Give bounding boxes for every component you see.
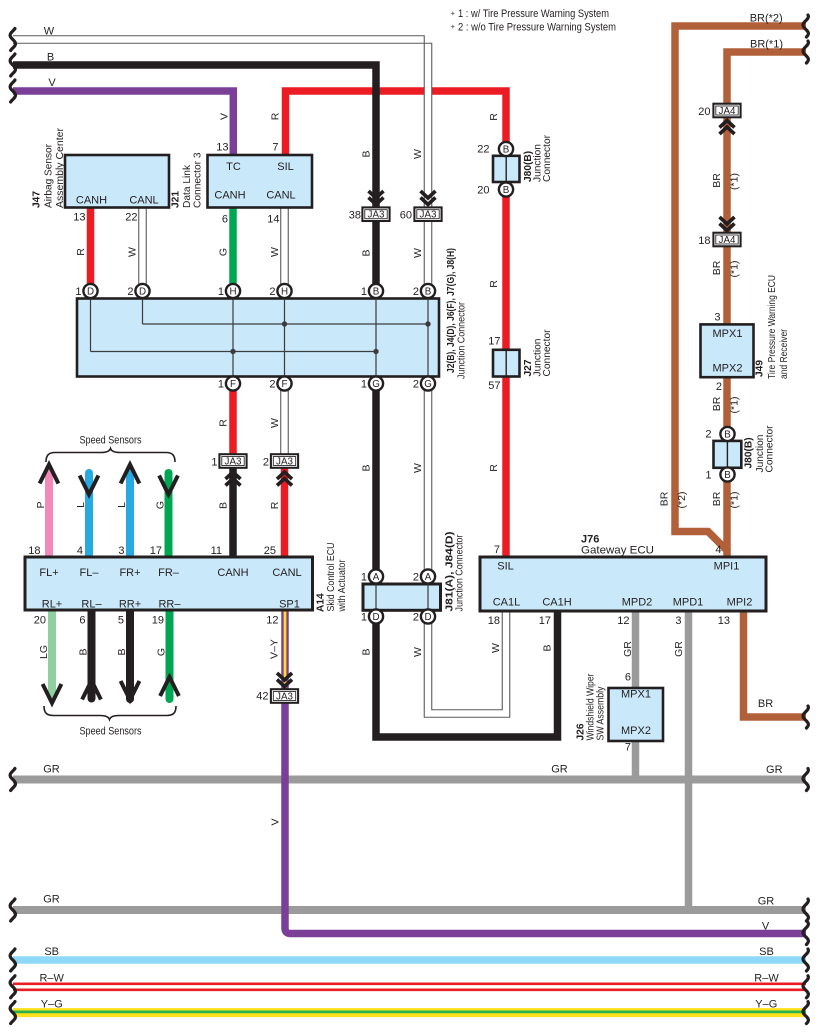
- svg-text:(*2): (*2): [676, 492, 688, 509]
- svg-text:B: B: [542, 644, 554, 651]
- svg-text:BR: BR: [659, 491, 671, 506]
- svg-text:1: 1: [75, 286, 81, 298]
- svg-text:2: 2: [413, 572, 419, 584]
- svg-text:W: W: [269, 418, 281, 428]
- svg-text:D: D: [139, 286, 146, 297]
- svg-text:7: 7: [494, 544, 500, 556]
- svg-text:JA3: JA3: [276, 457, 293, 468]
- svg-text:GR: GR: [622, 641, 634, 657]
- svg-text:1 : w/ Tire Pressure Warning S: 1 : w/ Tire Pressure Warning System: [458, 8, 609, 20]
- svg-text:MPI2: MPI2: [727, 597, 753, 609]
- svg-text:GR: GR: [673, 641, 685, 657]
- svg-text:13: 13: [718, 615, 730, 627]
- svg-text:Speed Sensors: Speed Sensors: [80, 726, 142, 738]
- svg-text:JA3: JA3: [420, 210, 437, 221]
- svg-text:12: 12: [617, 615, 629, 627]
- svg-text:B: B: [503, 185, 510, 196]
- svg-text:11: 11: [211, 545, 222, 557]
- svg-text:13: 13: [73, 212, 85, 224]
- svg-text:B: B: [116, 648, 128, 655]
- svg-text:F: F: [282, 379, 288, 390]
- svg-text:(*1): (*1): [729, 492, 741, 509]
- svg-text:MPX1: MPX1: [713, 328, 743, 340]
- svg-text:B: B: [724, 470, 731, 481]
- svg-text:2 : w/o Tire Pressure Warning: 2 : w/o Tire Pressure Warning System: [458, 21, 616, 33]
- svg-text:B: B: [503, 144, 510, 155]
- svg-text:2: 2: [127, 286, 133, 298]
- svg-text:B: B: [361, 648, 373, 655]
- svg-text:BR: BR: [711, 173, 723, 188]
- svg-text:MPD2: MPD2: [622, 597, 653, 609]
- svg-text:2: 2: [413, 286, 419, 298]
- svg-text:P: P: [35, 501, 47, 508]
- svg-text:Tire Pressure Warning ECU: Tire Pressure Warning ECU: [767, 275, 778, 379]
- svg-text:GR: GR: [551, 764, 568, 776]
- svg-text:12: 12: [266, 615, 278, 627]
- svg-text:W: W: [412, 248, 424, 258]
- svg-text:20: 20: [477, 185, 489, 197]
- svg-text:SW Assembly: SW Assembly: [596, 686, 607, 741]
- svg-text:RR+: RR+: [119, 599, 141, 611]
- svg-text:(*1): (*1): [729, 261, 741, 278]
- svg-text:Speed Sensors: Speed Sensors: [80, 434, 142, 446]
- svg-text:22: 22: [125, 212, 137, 224]
- svg-text:and Receiver: and Receiver: [779, 328, 790, 379]
- svg-text:6: 6: [79, 615, 85, 627]
- svg-text:17: 17: [150, 545, 162, 557]
- svg-text:22: 22: [477, 144, 489, 156]
- svg-text:J80(B): J80(B): [744, 437, 755, 468]
- svg-text:18: 18: [698, 235, 710, 247]
- svg-text:CA1L: CA1L: [493, 597, 521, 609]
- svg-text:R: R: [269, 501, 281, 509]
- svg-text:A: A: [425, 572, 432, 583]
- svg-text:CA1H: CA1H: [542, 597, 571, 609]
- svg-text:J47: J47: [32, 191, 43, 208]
- svg-text:D: D: [87, 286, 94, 297]
- svg-text:J2(B), J4(D), J6(F), J7(G), J8: J2(B), J4(D), J6(F), J7(G), J8(H): [446, 248, 457, 373]
- svg-text:25: 25: [264, 545, 276, 557]
- svg-text:R: R: [488, 464, 500, 472]
- svg-text:W: W: [412, 463, 424, 473]
- svg-text:5: 5: [118, 615, 124, 627]
- svg-text:18: 18: [488, 615, 500, 627]
- svg-text:SP1: SP1: [279, 599, 300, 611]
- svg-text:13: 13: [216, 142, 228, 154]
- svg-text:1: 1: [705, 470, 711, 482]
- svg-text:W: W: [269, 247, 281, 257]
- svg-text:MPX1: MPX1: [621, 688, 651, 700]
- svg-text:Junction Connector: Junction Connector: [455, 534, 466, 612]
- svg-text:Connector 3: Connector 3: [193, 152, 204, 208]
- svg-text:2: 2: [413, 612, 419, 624]
- svg-text:W: W: [127, 247, 139, 257]
- svg-text:Data Link: Data Link: [182, 164, 193, 208]
- svg-text:FL–: FL–: [80, 567, 100, 579]
- svg-text:R–W: R–W: [754, 973, 779, 985]
- svg-text:(*1): (*1): [729, 173, 741, 190]
- svg-text:B: B: [724, 429, 731, 440]
- svg-text:JA4: JA4: [719, 235, 736, 246]
- svg-text:B: B: [361, 150, 373, 157]
- svg-text:GR: GR: [43, 764, 60, 776]
- svg-text:4: 4: [77, 545, 83, 557]
- svg-text:1: 1: [218, 286, 224, 298]
- svg-text:B: B: [361, 464, 373, 471]
- svg-text:1: 1: [218, 379, 224, 391]
- svg-text:20: 20: [698, 106, 710, 118]
- svg-text:MPD1: MPD1: [673, 597, 704, 609]
- svg-text:W: W: [44, 25, 55, 37]
- svg-text:2: 2: [705, 429, 711, 441]
- svg-text:SB: SB: [759, 946, 774, 958]
- svg-text:TC: TC: [226, 161, 241, 173]
- svg-text:B: B: [425, 286, 432, 297]
- svg-text:BR: BR: [711, 491, 723, 506]
- svg-text:2: 2: [716, 381, 722, 393]
- svg-text:7: 7: [625, 742, 631, 754]
- svg-text:17: 17: [539, 615, 551, 627]
- svg-text:CANL: CANL: [129, 195, 158, 207]
- svg-text:1: 1: [361, 612, 367, 624]
- svg-text:R–W: R–W: [39, 973, 64, 985]
- svg-text:CANL: CANL: [266, 190, 295, 202]
- svg-text:B: B: [361, 249, 373, 256]
- svg-text:D: D: [372, 612, 379, 623]
- svg-text:J49: J49: [755, 360, 766, 377]
- svg-text:V–Y: V–Y: [269, 639, 281, 659]
- svg-text:B: B: [218, 502, 230, 509]
- svg-text:Y–G: Y–G: [755, 998, 777, 1010]
- svg-text:20: 20: [34, 615, 46, 627]
- svg-text:MPX2: MPX2: [713, 363, 743, 375]
- svg-text:G: G: [218, 248, 230, 256]
- svg-text:17: 17: [488, 336, 500, 348]
- svg-text:Assembly Center: Assembly Center: [55, 127, 66, 208]
- svg-text:38: 38: [349, 210, 361, 222]
- svg-text:3: 3: [118, 545, 124, 557]
- svg-text:JA3: JA3: [368, 210, 385, 221]
- svg-text:6: 6: [222, 214, 228, 226]
- svg-text:CANH: CANH: [214, 190, 245, 202]
- svg-text:42: 42: [256, 691, 268, 703]
- svg-text:18: 18: [28, 545, 40, 557]
- svg-text:JA3: JA3: [276, 692, 293, 703]
- svg-text:RL+: RL+: [42, 599, 63, 611]
- svg-text:MPX2: MPX2: [621, 725, 651, 737]
- svg-text:1: 1: [211, 457, 217, 469]
- svg-text:14: 14: [267, 214, 279, 226]
- svg-text:J21: J21: [171, 191, 182, 208]
- svg-text:Y–G: Y–G: [41, 998, 63, 1010]
- svg-text:F: F: [230, 379, 236, 390]
- svg-text:19: 19: [152, 615, 164, 627]
- svg-text:V: V: [48, 77, 56, 89]
- svg-text:Junction Connector: Junction Connector: [457, 301, 468, 379]
- svg-text:60: 60: [400, 210, 412, 222]
- svg-text:CANH: CANH: [76, 195, 107, 207]
- svg-text:SIL: SIL: [277, 161, 294, 173]
- svg-text:G: G: [424, 379, 432, 390]
- svg-text:A14: A14: [316, 593, 327, 612]
- svg-text:FL+: FL+: [39, 567, 58, 579]
- svg-text:H: H: [281, 286, 288, 297]
- svg-text:RR–: RR–: [158, 599, 181, 611]
- svg-text:JA3: JA3: [225, 457, 242, 468]
- svg-text:G: G: [156, 648, 168, 656]
- svg-text:CANL: CANL: [272, 567, 301, 579]
- svg-text:FR–: FR–: [158, 567, 180, 579]
- svg-text:4: 4: [715, 544, 721, 556]
- svg-text:R: R: [488, 113, 500, 121]
- svg-text:H: H: [229, 286, 236, 297]
- svg-text:R: R: [270, 112, 282, 120]
- svg-text:L: L: [75, 502, 87, 508]
- svg-text:SIL: SIL: [497, 561, 514, 573]
- svg-text:(*1): (*1): [729, 397, 741, 414]
- svg-text:B: B: [373, 286, 380, 297]
- svg-text:3: 3: [675, 615, 681, 627]
- svg-text:B: B: [78, 648, 90, 655]
- svg-text:with Actuator: with Actuator: [337, 559, 348, 612]
- svg-text:1: 1: [361, 572, 367, 584]
- svg-text:2: 2: [263, 457, 269, 469]
- svg-text:BR: BR: [758, 698, 773, 710]
- svg-text:RL–: RL–: [81, 599, 102, 611]
- svg-text:W: W: [412, 149, 424, 159]
- svg-text:W: W: [412, 647, 424, 657]
- svg-text:MPI1: MPI1: [714, 561, 740, 573]
- svg-text:JA4: JA4: [719, 106, 736, 117]
- svg-text:Skid Control ECU: Skid Control ECU: [326, 543, 337, 612]
- svg-text:FR+: FR+: [119, 567, 140, 579]
- svg-text:1: 1: [361, 286, 367, 298]
- svg-text:Connector: Connector: [542, 329, 553, 377]
- svg-text:7: 7: [272, 142, 278, 154]
- svg-text:6: 6: [625, 672, 631, 684]
- svg-text:B: B: [47, 51, 54, 63]
- svg-text:BR: BR: [711, 260, 723, 275]
- svg-text:G: G: [155, 501, 167, 509]
- svg-text:BR(*2): BR(*2): [750, 13, 783, 25]
- svg-text:GR: GR: [766, 764, 783, 776]
- svg-text:V: V: [270, 818, 282, 825]
- svg-text:2: 2: [269, 286, 275, 298]
- svg-text:BR(*1): BR(*1): [750, 39, 783, 51]
- svg-text:CANH: CANH: [217, 567, 248, 579]
- svg-text:2: 2: [269, 379, 275, 391]
- svg-text:D: D: [424, 612, 431, 623]
- svg-text:A: A: [373, 572, 380, 583]
- svg-text:1: 1: [361, 379, 367, 391]
- svg-text:3: 3: [714, 312, 720, 324]
- svg-text:Connector: Connector: [542, 134, 553, 182]
- svg-text:L: L: [116, 502, 128, 508]
- svg-text:2: 2: [413, 379, 419, 391]
- svg-text:Connector: Connector: [765, 425, 776, 473]
- svg-text:V: V: [219, 113, 231, 120]
- svg-text:R: R: [218, 419, 230, 427]
- svg-text:Gateway ECU: Gateway ECU: [581, 545, 654, 557]
- svg-text:V: V: [762, 921, 770, 933]
- svg-text:W: W: [490, 643, 502, 653]
- svg-text:G: G: [372, 379, 380, 390]
- svg-text:GR: GR: [43, 894, 60, 906]
- svg-text:R: R: [488, 280, 500, 288]
- svg-text:LG: LG: [38, 645, 50, 659]
- svg-text:R: R: [75, 248, 87, 256]
- svg-text:SB: SB: [44, 946, 59, 958]
- svg-text:GR: GR: [758, 896, 775, 908]
- svg-text:BR: BR: [711, 396, 723, 411]
- svg-text:57: 57: [488, 380, 500, 392]
- svg-text:Airbag Sensor: Airbag Sensor: [44, 143, 55, 208]
